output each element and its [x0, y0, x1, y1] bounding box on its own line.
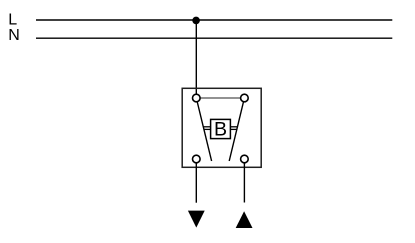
arrow down (lower blind) [188, 211, 205, 228]
left switch lever [196, 98, 211, 161]
arrow up (raise blind) [236, 211, 253, 228]
junction on L [192, 17, 200, 25]
mechanical link right lower [230, 128, 237, 130]
wire L (phase line) [36, 19, 392, 21]
mechanical link left upper [203, 126, 211, 128]
bottom-right contact [241, 155, 249, 163]
wire down output left [195, 163, 197, 202]
blind-control unit B box [211, 119, 231, 138]
svg-text:N: N [8, 27, 20, 44]
wire N (neutral line) [36, 37, 392, 39]
top-right contact [241, 94, 249, 102]
gray link between top contacts [196, 97, 244, 99]
svg-text:B: B [214, 119, 227, 141]
bottom-left contact [193, 155, 201, 163]
svg-text:L: L [8, 12, 17, 29]
wire up output right [243, 163, 245, 202]
wire from L junction to switch input [195, 20, 197, 95]
top-left contact [193, 94, 201, 102]
right switch lever [229, 98, 244, 161]
mechanical link right upper [230, 126, 238, 128]
mechanical link left lower [204, 128, 212, 130]
switch enclosure box [182, 88, 261, 167]
